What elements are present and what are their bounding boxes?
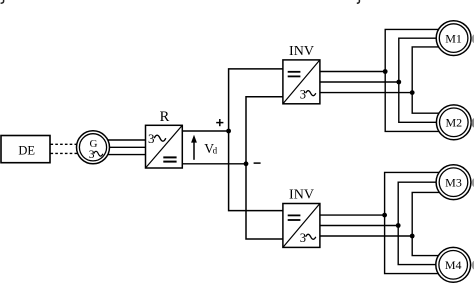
arrow Vd	[191, 135, 197, 160]
wire M3 phase c	[412, 192, 445, 236]
motor M4	[436, 247, 471, 282]
svg-text:INV: INV	[289, 188, 314, 203]
motor M1	[436, 21, 471, 56]
wire M4 phase b	[398, 226, 445, 265]
cropped caption glyph fragment (top-left)	[1, 0, 4, 3]
inverter INV1	[283, 60, 320, 104]
wire INV2 phase 2	[320, 225, 398, 227]
generator G	[77, 131, 110, 164]
wire M4 phase c	[412, 236, 445, 256]
inverter INV2	[283, 204, 320, 248]
node INV1 phase 3 junction	[410, 90, 415, 95]
svg-text:DE: DE	[18, 144, 35, 158]
wire INV1 phase 1	[320, 71, 385, 73]
svg-text:3: 3	[300, 87, 306, 101]
wire INV1 phase 2	[320, 81, 399, 83]
shaft coupling DE-G (dashed)	[51, 144, 79, 153]
wire G to R (3-phase)	[105, 140, 146, 155]
label minus	[254, 162, 261, 164]
svg-text:M4: M4	[445, 258, 462, 272]
svg-text:M2: M2	[445, 116, 462, 130]
wire INV2 phase 1	[320, 214, 385, 216]
svg-text:d: d	[213, 146, 218, 156]
positive DC bus	[229, 69, 283, 211]
node INV2 phase 3 junction	[410, 234, 415, 239]
wire M2 phase a	[385, 72, 445, 132]
node INV2 phase 1 junction	[382, 213, 387, 218]
cropped shaft stub right of M4	[472, 261, 474, 270]
wire R positive output	[182, 130, 228, 132]
node INV2 phase 2 junction	[396, 223, 401, 228]
wire M3 phase b	[398, 182, 445, 225]
wire M1 phase a	[385, 29, 445, 71]
svg-text:M3: M3	[445, 175, 462, 189]
cropped caption glyph fragment (top-center)	[357, 0, 360, 3]
motor M3	[436, 165, 471, 200]
node negative bus junction	[244, 161, 249, 166]
cropped shaft stub right of M3	[472, 178, 474, 187]
label Vd	[204, 141, 217, 156]
node INV1 phase 1 junction	[383, 69, 388, 74]
svg-text:3: 3	[300, 231, 306, 245]
cropped shaft stub right of M2	[471, 118, 474, 128]
rectifier R	[146, 125, 183, 168]
wire M2 phase c	[412, 93, 445, 114]
diesel engine DE box	[1, 136, 50, 163]
wire M2 phase b	[399, 82, 445, 122]
wire M1 phase c	[412, 47, 445, 93]
wire INV1 phase 3	[320, 92, 412, 94]
svg-text:INV: INV	[289, 44, 314, 59]
wire M4 phase a	[385, 215, 445, 274]
node INV1 phase 2 junction	[396, 80, 401, 85]
svg-text:3: 3	[148, 131, 155, 146]
svg-text:G: G	[90, 138, 98, 150]
wire INV2 phase 3	[320, 235, 412, 237]
svg-text:M1: M1	[445, 31, 462, 45]
svg-text:R: R	[160, 109, 170, 125]
cropped shaft stub right of M1	[472, 34, 474, 43]
wire M1 phase b	[399, 38, 445, 82]
node positive bus junction	[226, 129, 231, 134]
label +	[216, 119, 223, 126]
wire M3 phase a	[385, 172, 445, 215]
negative DC bus	[246, 97, 283, 239]
svg-text:3: 3	[89, 149, 95, 161]
motor M2	[436, 105, 471, 140]
wire R negative output	[182, 163, 246, 165]
